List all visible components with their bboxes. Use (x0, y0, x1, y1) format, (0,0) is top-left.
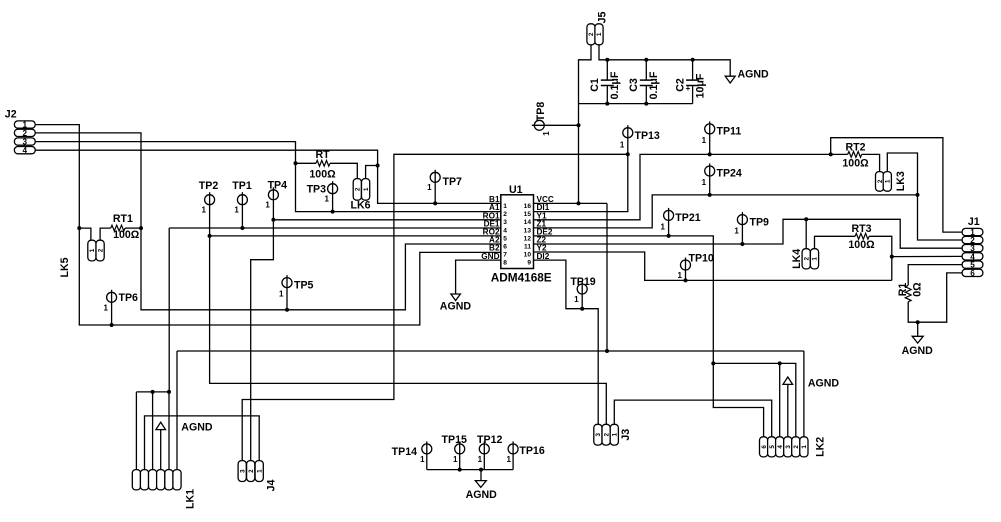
svg-text:TP8: TP8 (535, 102, 547, 122)
svg-text:6: 6 (761, 445, 768, 449)
svg-text:LK3: LK3 (895, 171, 907, 191)
svg-text:RT2: RT2 (845, 141, 865, 153)
svg-text:3: 3 (239, 469, 246, 473)
svg-text:1: 1 (279, 290, 284, 299)
svg-text:1: 1 (234, 206, 239, 215)
svg-text:ADM4168E: ADM4168E (491, 271, 552, 285)
svg-text:AGND: AGND (738, 69, 770, 81)
svg-text:3: 3 (503, 219, 507, 226)
svg-text:1: 1 (478, 455, 483, 464)
svg-text:100Ω: 100Ω (309, 169, 336, 181)
svg-text:8: 8 (503, 260, 507, 267)
svg-text:U1: U1 (509, 184, 523, 196)
svg-text:4: 4 (23, 146, 28, 155)
svg-text:GND: GND (481, 252, 499, 261)
svg-text:TP3: TP3 (307, 183, 327, 195)
svg-text:TP13: TP13 (635, 130, 660, 142)
svg-text:1: 1 (702, 136, 707, 145)
svg-text:TP9: TP9 (750, 216, 770, 228)
svg-text:C3: C3 (628, 78, 640, 92)
svg-text:TP1: TP1 (232, 180, 252, 192)
svg-text:7: 7 (503, 252, 507, 259)
svg-text:2: 2 (588, 32, 595, 36)
svg-text:1: 1 (506, 455, 511, 464)
svg-text:LK1: LK1 (185, 489, 197, 509)
svg-text:0.1μF: 0.1μF (648, 71, 660, 99)
svg-text:J4: J4 (266, 480, 278, 492)
svg-text:3: 3 (785, 445, 792, 449)
svg-text:5: 5 (503, 235, 507, 242)
svg-text:1: 1 (596, 32, 603, 36)
svg-text:5: 5 (769, 445, 776, 449)
svg-text:TP6: TP6 (119, 292, 139, 304)
svg-text:LK4: LK4 (791, 249, 803, 269)
svg-text:1: 1 (812, 257, 819, 261)
svg-text:6: 6 (503, 244, 507, 251)
svg-text:1: 1 (885, 179, 892, 183)
svg-text:1: 1 (801, 445, 808, 449)
svg-text:2: 2 (503, 211, 507, 218)
svg-text:100Ω: 100Ω (113, 229, 140, 241)
svg-text:2: 2 (603, 432, 610, 436)
svg-text:1: 1 (325, 195, 330, 204)
svg-text:16: 16 (524, 203, 532, 210)
svg-text:TP7: TP7 (443, 176, 463, 188)
svg-text:2: 2 (355, 187, 362, 191)
svg-text:TP11: TP11 (717, 125, 742, 137)
svg-text:AGND: AGND (181, 422, 213, 434)
svg-text:1: 1 (661, 223, 666, 232)
svg-text:C1: C1 (589, 78, 601, 92)
svg-text:10: 10 (524, 252, 532, 259)
svg-text:+: + (686, 84, 691, 93)
svg-text:AGND: AGND (440, 301, 472, 313)
svg-text:14: 14 (524, 219, 532, 226)
svg-text:R1: R1 (897, 283, 909, 297)
svg-text:TP10: TP10 (689, 253, 714, 265)
svg-text:TP5: TP5 (294, 279, 314, 291)
svg-text:9: 9 (527, 260, 531, 267)
svg-text:1: 1 (574, 295, 579, 304)
svg-text:13: 13 (524, 227, 532, 234)
svg-text:1: 1 (104, 304, 109, 313)
svg-text:AGND: AGND (808, 377, 840, 389)
svg-text:TP21: TP21 (675, 212, 700, 224)
svg-text:4: 4 (777, 445, 784, 449)
svg-text:LK6: LK6 (350, 200, 370, 212)
svg-text:2: 2 (97, 248, 104, 252)
svg-text:10μF: 10μF (695, 73, 707, 98)
svg-text:1: 1 (612, 432, 619, 436)
svg-text:2: 2 (793, 445, 800, 449)
svg-text:1: 1 (427, 183, 432, 192)
svg-text:11: 11 (524, 244, 531, 251)
svg-text:TP14: TP14 (392, 446, 417, 458)
svg-text:J5: J5 (597, 12, 609, 24)
svg-text:J1: J1 (968, 216, 980, 228)
svg-text:TP16: TP16 (519, 445, 544, 457)
svg-text:15: 15 (524, 211, 532, 218)
svg-text:1: 1 (89, 248, 96, 252)
svg-text:100Ω: 100Ω (848, 239, 875, 251)
svg-text:4: 4 (503, 227, 507, 234)
svg-text:TP24: TP24 (717, 167, 742, 179)
svg-text:TP12: TP12 (477, 434, 502, 446)
svg-text:1: 1 (734, 227, 739, 236)
svg-text:DI2: DI2 (537, 252, 550, 261)
svg-text:J2: J2 (5, 109, 17, 121)
svg-text:3: 3 (595, 432, 602, 436)
svg-text:1: 1 (363, 187, 370, 191)
svg-text:1: 1 (678, 271, 683, 280)
svg-text:2: 2 (23, 129, 28, 138)
svg-text:1: 1 (453, 455, 458, 464)
svg-text:TP15: TP15 (442, 434, 467, 446)
svg-text:2: 2 (803, 257, 810, 261)
svg-text:1: 1 (542, 131, 551, 136)
svg-text:TP19: TP19 (570, 276, 595, 288)
svg-text:1: 1 (503, 203, 507, 210)
svg-text:LK5: LK5 (59, 257, 71, 277)
svg-text:C2: C2 (674, 78, 686, 92)
svg-text:TP4: TP4 (268, 180, 288, 192)
svg-text:1: 1 (202, 206, 207, 215)
svg-text:AGND: AGND (902, 345, 934, 357)
svg-text:J3: J3 (620, 429, 632, 441)
svg-text:0.1μF: 0.1μF (609, 71, 621, 99)
svg-text:2: 2 (248, 469, 255, 473)
svg-text:1: 1 (420, 455, 425, 464)
svg-text:100Ω: 100Ω (842, 157, 869, 169)
svg-text:1: 1 (265, 201, 270, 210)
svg-text:0Ω: 0Ω (911, 282, 923, 297)
svg-text:12: 12 (524, 235, 532, 242)
svg-text:LK2: LK2 (815, 437, 827, 457)
svg-text:6: 6 (970, 269, 975, 278)
svg-text:1: 1 (702, 178, 707, 187)
svg-text:TP2: TP2 (199, 180, 219, 192)
svg-text:RT3: RT3 (851, 223, 871, 235)
svg-text:1: 1 (620, 141, 625, 150)
svg-text:1: 1 (256, 469, 263, 473)
svg-text:AGND: AGND (466, 489, 498, 501)
svg-text:RT1: RT1 (113, 213, 133, 225)
